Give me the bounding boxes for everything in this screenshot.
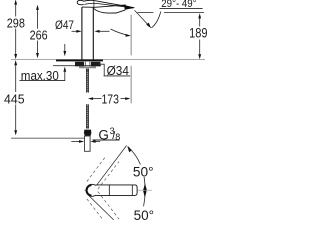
svg-text:298: 298: [7, 16, 25, 31]
svg-text:Ø34: Ø34: [107, 64, 129, 78]
svg-text:max.30: max.30: [21, 69, 59, 83]
svg-text:Ø47: Ø47: [55, 18, 74, 32]
svg-text:266: 266: [30, 27, 48, 42]
svg-text:50°: 50°: [134, 208, 154, 220]
svg-text:173: 173: [101, 91, 119, 106]
svg-text:445: 445: [4, 92, 25, 107]
svg-text:50°: 50°: [133, 164, 154, 179]
svg-text:189: 189: [189, 25, 208, 41]
svg-text:G: G: [98, 128, 109, 143]
svg-text:8: 8: [115, 132, 120, 142]
